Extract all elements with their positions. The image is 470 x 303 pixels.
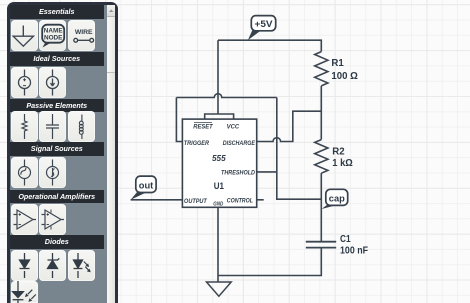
svg-text:+5V: +5V bbox=[255, 19, 274, 30]
palette button ground bbox=[11, 20, 38, 51]
palette header Signal Sources bbox=[10, 142, 104, 156]
palette row 3 bbox=[10, 111, 12, 142]
component palette panel bbox=[7, 2, 118, 303]
svg-text:VCC: VCC bbox=[227, 123, 240, 130]
scrollbar bbox=[107, 5, 115, 303]
palette button voltage source bbox=[11, 67, 38, 98]
node flag out bbox=[131, 176, 156, 200]
palette header Diodes bbox=[10, 235, 104, 249]
op-amp 555 box U1 bbox=[182, 119, 256, 207]
palette row 2 bbox=[10, 67, 12, 98]
wire DISCHARGE with hop, up to R1/R2 junction bbox=[257, 111, 322, 141]
palette button resistor bbox=[11, 111, 38, 142]
svg-text:555: 555 bbox=[212, 153, 226, 163]
svg-text:NAME: NAME bbox=[44, 27, 64, 34]
node flag +5V bbox=[248, 16, 276, 40]
capacitor C1 plates bbox=[306, 242, 336, 248]
wire VCC drop from rail bbox=[217, 40, 219, 114]
wire top loop horizontal with hop over VCC drop bbox=[176, 94, 276, 98]
svg-text:C1: C1 bbox=[340, 234, 351, 245]
svg-text:U1: U1 bbox=[214, 181, 224, 191]
palette button op-amp with power bbox=[39, 204, 66, 235]
wire left loop vertical to TRIGGER bbox=[176, 98, 182, 142]
wire THRESHOLD tap bbox=[257, 171, 277, 173]
svg-text:NODE: NODE bbox=[44, 34, 63, 41]
palette button current source bbox=[39, 67, 66, 98]
palette header Essentials bbox=[10, 5, 104, 19]
palette row 1 bbox=[10, 20, 12, 51]
ground symbol bbox=[207, 282, 232, 296]
palette header Passive Elements bbox=[10, 99, 104, 113]
svg-text:OUTPUT: OUTPUT bbox=[184, 198, 208, 205]
svg-text:GND: GND bbox=[213, 202, 223, 208]
palette header Ideal Sources bbox=[10, 52, 104, 66]
palette row 5 bbox=[10, 204, 12, 235]
palette row 4 bbox=[10, 157, 12, 188]
palette row 6 bbox=[10, 250, 12, 281]
palette button function source bbox=[39, 157, 66, 188]
svg-text:RESET: RESET bbox=[193, 123, 214, 130]
palette row 7 (cut off) bbox=[10, 281, 12, 303]
resistor R2 bbox=[315, 140, 328, 174]
svg-text:TRIGGER: TRIGGER bbox=[184, 140, 210, 147]
palette button sine source bbox=[11, 157, 38, 188]
wire C1 bottom lead and bottom rail bbox=[218, 248, 321, 276]
palette button zener diode bbox=[39, 250, 66, 281]
wire +5V rail to R1 top bbox=[218, 40, 321, 51]
palette button diode bbox=[11, 250, 38, 281]
node flag cap bbox=[322, 189, 348, 209]
svg-text:THRESHOLD: THRESHOLD bbox=[221, 170, 255, 177]
svg-text:DISCHARGE: DISCHARGE bbox=[223, 140, 256, 147]
svg-text:cap: cap bbox=[329, 194, 345, 205]
palette header Operational Amplifiers bbox=[10, 190, 104, 204]
svg-text:R1: R1 bbox=[331, 58, 344, 69]
wire GND pin down to ground bbox=[217, 207, 219, 282]
wire OUTPUT bbox=[131, 199, 183, 201]
svg-text:out: out bbox=[139, 181, 154, 192]
palette button photodiode bbox=[11, 281, 38, 303]
svg-text:WIRE: WIRE bbox=[74, 29, 92, 36]
wire R1 bottom to R2 top bbox=[320, 86, 322, 140]
svg-text:100 Ω: 100 Ω bbox=[331, 71, 357, 82]
palette button LED bbox=[68, 250, 95, 281]
svg-text:CONTROL: CONTROL bbox=[227, 197, 253, 204]
palette button capacitor bbox=[39, 111, 66, 142]
resistor R1 bbox=[315, 52, 328, 86]
wire right loop vertical down to cap node bbox=[277, 98, 322, 200]
wire R2 bottom to C1 top bbox=[320, 173, 322, 242]
palette button wire bbox=[68, 20, 95, 51]
svg-text:100 nF: 100 nF bbox=[340, 246, 368, 257]
wire CONTROL stub bbox=[257, 199, 264, 201]
palette button name node bbox=[39, 20, 66, 51]
palette button op-amp bbox=[11, 204, 38, 235]
wire RESET/VCC split bar bbox=[205, 114, 234, 119]
svg-text:R2: R2 bbox=[332, 147, 345, 158]
svg-text:1 kΩ: 1 kΩ bbox=[332, 158, 353, 169]
palette button inductor bbox=[68, 111, 95, 142]
